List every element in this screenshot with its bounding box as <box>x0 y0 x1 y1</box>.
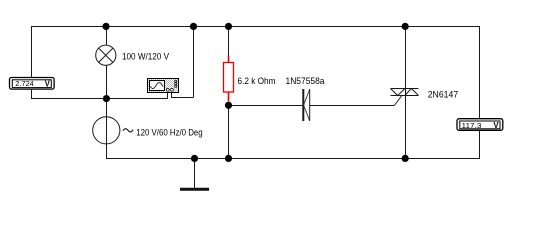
svg-text:6.2 k Ohm: 6.2 k Ohm <box>238 76 276 87</box>
svg-text:2.724: 2.724 <box>15 79 34 88</box>
svg-text:1N57558a: 1N57558a <box>286 76 326 87</box>
svg-text:100 W/120 V: 100 W/120 V <box>122 51 170 62</box>
svg-text:V: V <box>494 120 499 130</box>
svg-text:117.3: 117.3 <box>462 121 482 130</box>
svg-text:V: V <box>45 79 50 89</box>
svg-text:2N6147: 2N6147 <box>428 89 459 100</box>
svg-text:120 V/60 Hz/0 Deg: 120 V/60 Hz/0 Deg <box>136 127 203 138</box>
